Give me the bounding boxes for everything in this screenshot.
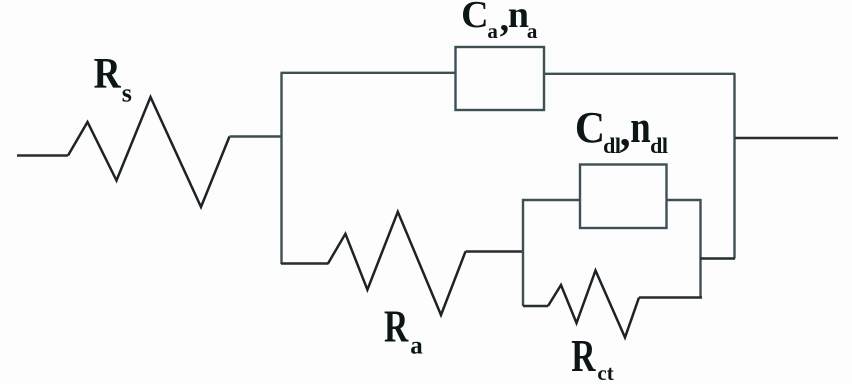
wire Rct bottom lead: [523, 305, 548, 307]
wire bottom branch left: [281, 262, 329, 264]
svg-text:C: C: [575, 104, 605, 152]
label Ca,na: [461, 0, 538, 43]
node B (right junction vertical): [733, 73, 735, 258]
svg-text:a: a: [410, 332, 423, 359]
svg-text:dl: dl: [603, 133, 621, 158]
svg-text:a: a: [487, 19, 498, 43]
wire output lead: [735, 137, 838, 139]
CPE U1 box Ca: [456, 47, 545, 110]
resistor R2 (Ra zigzag): [328, 212, 466, 315]
svg-text:ct: ct: [597, 361, 613, 384]
wire Rs to node A: [230, 135, 283, 137]
wire parallel top right: [666, 199, 701, 201]
wire Rct to right vertical: [639, 296, 702, 298]
wire parallel block left vertical: [522, 199, 524, 306]
svg-text:R: R: [571, 330, 596, 381]
wire input lead: [17, 154, 68, 156]
svg-text:R: R: [384, 300, 409, 351]
label Rct: [571, 330, 613, 384]
node A (left junction vertical): [280, 73, 282, 264]
wire parallel top left: [522, 199, 581, 201]
svg-text:dl: dl: [650, 133, 668, 158]
svg-text:,: ,: [620, 107, 631, 156]
wire parallel block output stub: [700, 257, 735, 259]
svg-text:a: a: [527, 19, 538, 43]
wire top branch right: [544, 73, 735, 75]
label Cdl,ndl: [575, 102, 668, 158]
svg-text:n: n: [630, 102, 650, 153]
wire Ra to parallel block: [466, 250, 525, 252]
CPE U2 box Cdl: [580, 165, 667, 229]
svg-text:C: C: [461, 0, 488, 36]
resistor R3 (Rct zigzag): [548, 271, 639, 338]
label Ra: [384, 300, 423, 359]
svg-text:n: n: [508, 0, 529, 36]
label Rs: [94, 49, 132, 107]
svg-text:R: R: [94, 49, 122, 97]
wire top branch left: [281, 72, 457, 74]
wire parallel right vertical: [699, 199, 701, 298]
svg-text:s: s: [122, 79, 132, 108]
resistor R1 (Rs zigzag): [68, 97, 230, 207]
